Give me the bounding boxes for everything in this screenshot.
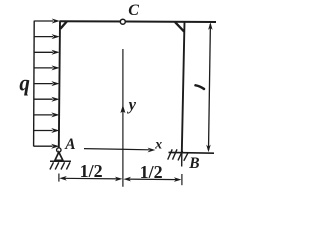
- support B hatch 3: [178, 151, 183, 161]
- right column B: [182, 22, 185, 153]
- label C: [128, 2, 139, 19]
- svg-text:A: A: [64, 136, 75, 153]
- load tail line: [33, 21, 36, 147]
- x axis: [84, 148, 155, 153]
- support A hatch 1: [50, 162, 54, 169]
- load arrow 1: [34, 19, 60, 24]
- svg-text:1/2: 1/2: [80, 161, 103, 181]
- svg-text:C: C: [128, 2, 139, 19]
- support A hatch 2: [55, 162, 59, 169]
- bottom dimension line right half: [123, 177, 181, 182]
- corner brace top-left: [60, 21, 67, 28]
- support B ground line: [169, 151, 215, 154]
- support B hatch 1: [168, 149, 173, 159]
- dimension extension tick at B: [181, 174, 183, 185]
- corner brace top-right: [175, 22, 184, 32]
- load arrow 3: [34, 50, 60, 55]
- y axis arrowhead: [120, 105, 125, 113]
- load arrow 8: [34, 128, 60, 133]
- load arrow 7: [34, 112, 60, 117]
- support B hatch 2: [173, 149, 178, 159]
- support A hatch 4: [66, 162, 70, 169]
- load arrow 9: [34, 144, 60, 149]
- label B: [188, 155, 199, 172]
- support B hatch 4: [184, 153, 188, 161]
- label x: [154, 137, 162, 152]
- svg-text:1/2: 1/2: [140, 162, 163, 182]
- svg-text:x: x: [154, 137, 162, 152]
- support A pin circle: [57, 148, 61, 152]
- beam (top girder): [60, 20, 217, 23]
- right dimension line: [206, 22, 212, 152]
- dimension extension tick at A: [58, 174, 60, 182]
- load arrow 5: [34, 81, 60, 86]
- load arrow 4: [34, 65, 60, 70]
- label l (rotated): [196, 85, 205, 89]
- label 1/2 left: [80, 161, 103, 181]
- hinge C: [120, 19, 125, 24]
- support A ground line: [50, 160, 71, 162]
- svg-text:q: q: [19, 71, 30, 96]
- bottom dimension line left half: [59, 176, 122, 181]
- label 1/2 right: [140, 162, 163, 182]
- support A hatch 3: [61, 162, 65, 169]
- support B column stub: [181, 153, 183, 167]
- load arrow 2: [34, 34, 60, 39]
- svg-text:y: y: [127, 95, 137, 114]
- label A: [64, 136, 75, 153]
- label q: [19, 71, 30, 96]
- center line (y axis): [122, 49, 124, 187]
- svg-text:B: B: [188, 155, 199, 172]
- load arrow 6: [34, 97, 60, 102]
- label y: [127, 95, 137, 114]
- left column A: [59, 21, 60, 148]
- support A triangle: [55, 152, 63, 160]
